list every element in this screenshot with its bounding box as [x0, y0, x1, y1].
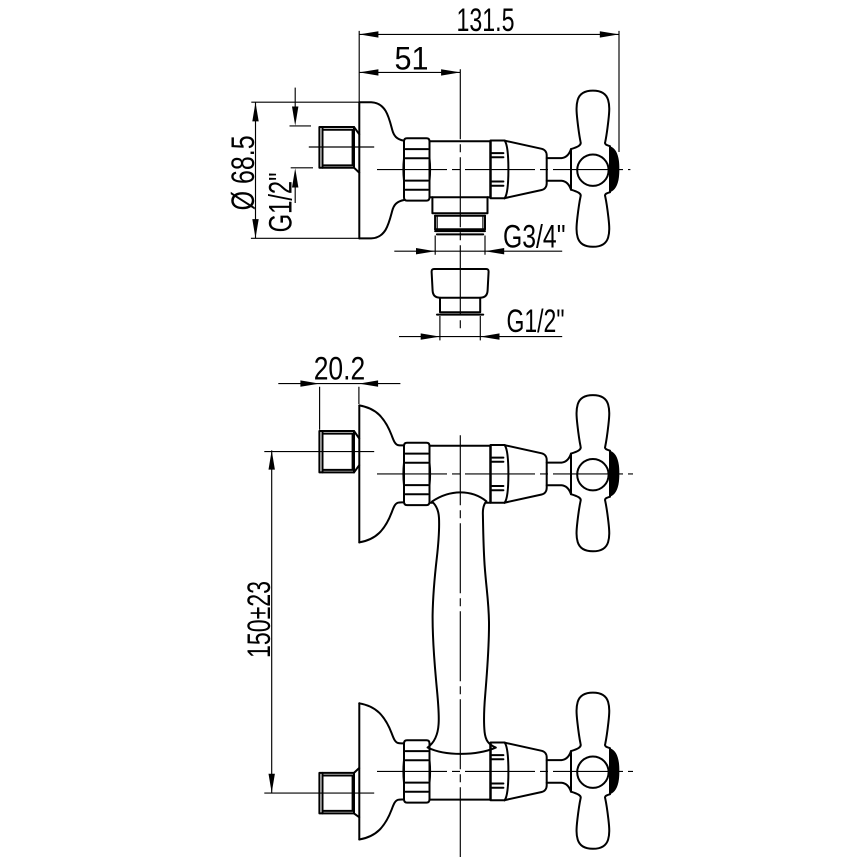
outlet thread G3/4 top view — [435, 216, 485, 235]
dimension G1/2 adapter — [399, 303, 565, 340]
horizontal centerline body 1 — [377, 473, 633, 475]
dimension 20.2 — [278, 351, 400, 387]
svg-text:G1/2": G1/2" — [262, 172, 298, 232]
cross handle 1 front view — [571, 395, 619, 551]
hex nut top view — [403, 138, 430, 200]
wall nipple centerline top view — [309, 146, 374, 148]
dimension G1/2 wall nipple top view — [262, 88, 313, 233]
vertical centerline outlet axis — [459, 69, 461, 330]
handle stem top view — [547, 149, 571, 190]
outlet collar top view — [432, 197, 487, 216]
hex nut 2 front view — [403, 740, 430, 802]
outlet extension lines — [435, 236, 485, 255]
svg-text:131.5: 131.5 — [457, 2, 515, 38]
dimension 131.5 extension lines — [359, 31, 619, 152]
valve body top view — [430, 141, 491, 197]
handle cone 1 front view — [505, 445, 547, 502]
adapter extension lines — [440, 316, 480, 340]
horizontal centerline body 2 — [377, 770, 633, 772]
wall nipple 2 centerline — [264, 792, 374, 794]
dimension G3/4 — [394, 219, 565, 255]
horizontal centerline top view — [377, 169, 630, 171]
dimension 51 — [359, 40, 460, 76]
handle cone 2 front view — [505, 743, 547, 800]
dimension 20.2 extension lines — [320, 387, 359, 430]
wall nipple 1 front view — [319, 431, 359, 472]
svg-text:51: 51 — [395, 40, 429, 76]
escutcheon 2 front view — [359, 703, 404, 839]
handle cone top view — [505, 141, 547, 198]
bonnet hex top view — [491, 141, 509, 199]
escutcheon 1 front view — [359, 405, 404, 542]
svg-text:20.2: 20.2 — [314, 351, 366, 387]
cross handle 2 front view — [571, 693, 619, 849]
wall nipple top view — [319, 127, 359, 173]
cross handle top view — [571, 91, 619, 247]
dimension 150+-23 — [241, 450, 277, 793]
valve body 2 front view — [430, 799, 491, 801]
escutcheon top view — [359, 102, 404, 238]
shower riser tube — [428, 492, 496, 754]
valve body 1 front view — [430, 446, 491, 503]
svg-text:G3/4": G3/4" — [503, 219, 566, 255]
bonnet hex 2 front view — [491, 743, 509, 801]
wall nipple 1 centerline — [264, 451, 374, 453]
vertical centerline riser tube — [459, 435, 461, 857]
adapter thread G1/2 — [437, 298, 483, 315]
svg-text:G1/2": G1/2" — [507, 303, 565, 339]
dimension dia 68.5 — [225, 102, 359, 238]
svg-text:Ø 68.5: Ø 68.5 — [225, 135, 261, 210]
handle stem 1 front view — [547, 454, 571, 495]
hex nut 1 front view — [403, 443, 430, 505]
handle stem 2 front view — [547, 751, 571, 792]
dimension 131.5 dim line — [359, 2, 619, 38]
svg-text:150±23: 150±23 — [241, 581, 277, 658]
bonnet hex 1 front view — [491, 445, 509, 503]
adapter cup — [432, 269, 489, 298]
wall nipple 2 front view — [319, 768, 359, 817]
